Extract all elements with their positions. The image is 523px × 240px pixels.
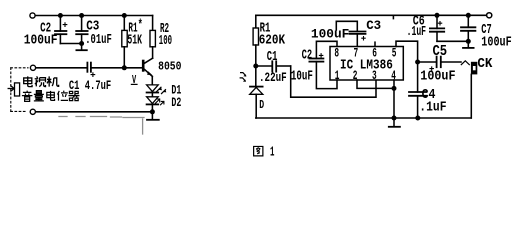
svg-text:8050: 8050 (158, 61, 181, 74)
wire: pin4 stub to bottom rail (393, 80, 395, 118)
svg-text:.01uF: .01uF (85, 31, 112, 48)
hanzi 位 (wei) (58, 91, 69, 101)
svg-text:100uF: 100uF (420, 68, 455, 84)
ground bar below C7 (463, 41, 474, 48)
svg-text:C3: C3 (366, 18, 381, 33)
hanzi 音 (yin) (22, 91, 33, 102)
node: C2/C3 bottom junction (79, 41, 84, 46)
svg-text:C1: C1 (267, 51, 278, 65)
wire: C6 bottom to C7 bottom (437, 40, 468, 42)
svg-text:D2: D2 (171, 96, 181, 110)
svg-text:.1uF: .1uF (407, 25, 427, 40)
wire: pin6 stub (374, 42, 376, 46)
svg-text:CK: CK (477, 56, 492, 72)
wire: right circuit bottom rail (256, 117, 471, 119)
node: C6 rail junction (435, 13, 440, 18)
hanzi 视 (shi) (35, 76, 46, 86)
wire: C2 bottom to C3 bottom (60, 43, 81, 45)
node: C2 top junction (58, 13, 63, 18)
TV set dashed enclosure (11, 68, 28, 112)
svg-text:2: 2 (353, 69, 358, 83)
svg-text:C2: C2 (302, 49, 313, 63)
wire: pin5 output route (396, 41, 418, 62)
node: D2 / bottom wire junction (150, 109, 155, 114)
ground bar below D2 (147, 112, 159, 120)
node: R1 top junction (122, 13, 127, 18)
hanzi 器 (qi) (68, 91, 79, 100)
svg-text:10uF: 10uF (291, 69, 313, 84)
terminal circle top-right (487, 13, 492, 18)
capacitor C2 10uF (pins 1-8) (309, 41, 337, 88)
svg-text:D: D (259, 99, 264, 113)
resistor R1 620K (253, 15, 258, 66)
LED D1 (147, 85, 167, 97)
svg-text:1: 1 (335, 69, 340, 83)
hanzi 图 (tu) (254, 146, 263, 155)
svg-text:620K: 620K (259, 33, 286, 49)
wire: bottom return wire (33, 111, 152, 113)
transistor Q1 8050 (143, 58, 152, 84)
node: R1 bottom / C1 / D junction (253, 64, 258, 69)
node: ground junction pin4 (392, 116, 397, 121)
terminal circle top-left (30, 13, 35, 18)
node: C4 bottom junction (415, 116, 420, 121)
wire: right circuit top rail (256, 14, 487, 16)
capacitor C3 100uF (pin7 bypass) (336, 21, 365, 46)
ground bar below C2/C3 (76, 44, 86, 51)
wire: rail stub above pin6 (392, 15, 394, 18)
Chinese text 电视机 / 音量电位器 drawn as strokes (22, 76, 80, 101)
svg-text:5: 5 (392, 47, 397, 61)
gray scan dashes bottom-left (59, 117, 144, 135)
ground bar below bottom rail (389, 118, 400, 127)
hanzi 机 (ji) (47, 76, 59, 86)
svg-text:100uF: 100uF (481, 34, 511, 50)
resistor R1 (51K) (122, 16, 127, 68)
svg-text:100uF: 100uF (311, 26, 349, 41)
IC U1 LM386 body (330, 47, 403, 81)
wire: mid wire from terminal to base (34, 67, 88, 69)
wire: left circuit top rail (33, 15, 153, 17)
photodiode D (240, 66, 263, 118)
wire: C1 to pin3 route (291, 66, 376, 97)
hanzi 电 (dian) 2 (47, 91, 55, 101)
node: C3 top junction (79, 13, 84, 18)
svg-text:100: 100 (159, 34, 172, 49)
svg-text:51K: 51K (127, 32, 142, 48)
svg-text:1: 1 (270, 145, 275, 160)
node: C7 bottom junction (466, 39, 471, 44)
capacitor C3 (.01uF) (76, 16, 87, 44)
hanzi 电 (dian) (24, 76, 32, 86)
resistor R2 (100) (150, 16, 155, 59)
terminal circle bottom-left (30, 109, 35, 114)
wire: pin2 to ground (357, 80, 394, 88)
node: C7 rail junction (466, 13, 471, 18)
svg-text:IC LM386: IC LM386 (340, 57, 393, 73)
capacitor C6 .1uF (430, 15, 444, 41)
svg-text:3: 3 (372, 69, 377, 83)
capacitor C2 (100uF electrolytic) (55, 16, 67, 44)
node: pin2/pin4 wire junction (392, 86, 397, 91)
terminal circle mid-left (30, 65, 35, 70)
svg-text:100uF: 100uF (24, 31, 58, 48)
LED D2 (147, 97, 164, 112)
label 图 1 (figure 1) (254, 146, 263, 155)
potentiometer (volume pot) (8, 83, 19, 96)
svg-text:8: 8 (334, 47, 339, 61)
svg-text:*: * (138, 18, 143, 34)
capacitor C1 (4.7uF) (87, 63, 94, 77)
capacitor C4 .1uF (409, 62, 427, 118)
capacitor C7 100uF (461, 15, 475, 41)
node: base wire / R1 bottom junction (122, 65, 127, 70)
capacitor C5 100uF output (418, 57, 461, 71)
node: output junction (415, 60, 420, 65)
svg-text:C5: C5 (433, 44, 448, 60)
hanzi 量 (liang) (34, 91, 44, 101)
label V underline (131, 83, 138, 85)
svg-text:.1uF: .1uF (419, 100, 446, 115)
jack CK (461, 61, 477, 118)
svg-text:4: 4 (391, 69, 396, 83)
capacitor C1 .22uF (256, 61, 291, 71)
svg-text:6: 6 (372, 47, 377, 61)
svg-text:.22uF: .22uF (259, 72, 287, 86)
svg-text:7: 7 (354, 47, 359, 61)
